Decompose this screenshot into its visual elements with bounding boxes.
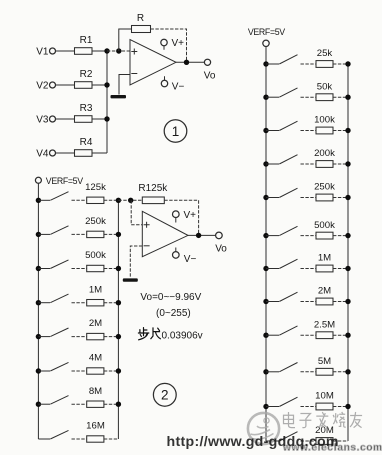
svg-text:V−: V− [172, 81, 185, 92]
resistor R2 [75, 82, 93, 89]
wire switch to resistor 10M [301, 406, 317, 408]
switch S10M blade [279, 397, 297, 406]
input terminal V2 [50, 82, 56, 88]
wire U2 - input to ground [130, 246, 142, 278]
svg-text:10M: 10M [315, 391, 334, 402]
input terminal V3 [50, 116, 56, 122]
wire resistor 20M to right output rail [333, 440, 348, 442]
U1 + input pin mark [131, 49, 137, 55]
svg-text:1M: 1M [318, 253, 331, 264]
wire resistor 500k to output rail [104, 268, 119, 270]
svg-text:5M: 5M [318, 356, 331, 367]
wire summing node to U2 + input [131, 200, 142, 225]
svg-text:V4: V4 [36, 149, 49, 160]
rail junction at 500k branch [36, 266, 41, 271]
wire resistor 2.5M to right output rail [333, 334, 348, 336]
rail junction at 250k branch [263, 195, 268, 200]
right ladder output rail [347, 64, 349, 441]
output rail junction [116, 334, 121, 339]
svg-text:8M: 8M [89, 386, 102, 397]
U2 output junction node [196, 233, 201, 238]
wire switch to resistor 1M [301, 268, 317, 270]
svg-text:250k: 250k [85, 216, 106, 227]
output rail junction [116, 368, 121, 373]
wire switch to resistor 500k [301, 235, 317, 237]
wire resistor 8M to output rail [104, 403, 119, 405]
wire R2 to summing rail [92, 84, 107, 86]
svg-text:125k: 125k [85, 182, 106, 193]
switch S100k left stub [266, 130, 279, 132]
junction on summing rail y=85 [104, 82, 109, 87]
right output rail junction [345, 369, 350, 374]
V- stub wire [164, 76, 166, 80]
wire V2 to R2 [56, 84, 75, 86]
wire resistor 2M to output rail [104, 336, 119, 338]
svg-text:16M: 16M [86, 421, 105, 432]
svg-text:V+: V+ [184, 210, 197, 221]
wire resistor 1M to output rail [104, 302, 119, 304]
resistor 25k [316, 61, 333, 68]
wire switch to resistor 2M [301, 301, 317, 303]
wire switch to resistor 200k [301, 163, 317, 165]
switch S20M blade [279, 432, 297, 441]
svg-text:V3: V3 [36, 115, 49, 126]
switch S1M left stub [266, 268, 279, 270]
right output rail junction [345, 195, 350, 200]
switch S500k blade [50, 260, 68, 269]
resistor 50k [316, 94, 333, 101]
switch S16M blade [50, 430, 68, 439]
resistor 20M [316, 438, 333, 445]
switch S200k left stub [266, 163, 279, 165]
wire VERF to right ladder rail [265, 47, 267, 65]
rail junction at 10M branch [263, 404, 268, 409]
wire V1 to R1 [56, 50, 75, 52]
svg-text:V2: V2 [36, 81, 49, 92]
U1 V+ supply terminal [161, 39, 167, 45]
output rail junction [116, 198, 121, 203]
junction on summing rail y=51 [104, 48, 109, 53]
circled number 1 [164, 120, 187, 143]
right ladder supply rail [265, 64, 267, 441]
switch S1M blade [50, 294, 68, 303]
VERF terminal (left) [35, 177, 41, 183]
U2 + input pin mark [144, 222, 150, 228]
svg-text:500k: 500k [85, 250, 106, 261]
svg-text:50k: 50k [317, 81, 333, 92]
wire R4 to summing rail [92, 152, 107, 154]
right output rail junction [345, 333, 350, 338]
resistor 500k [316, 232, 333, 239]
resistor R3 [75, 116, 93, 123]
right output rail junction [345, 266, 350, 271]
wire switch to resistor 100k [301, 130, 317, 132]
resistor 2.5M [316, 332, 333, 339]
wire switch to resistor 250k [72, 233, 87, 235]
svg-text:VERF=5V: VERF=5V [46, 176, 83, 186]
svg-text:R1: R1 [80, 35, 93, 46]
switch S2M blade [50, 328, 68, 337]
switch S25k left stub [266, 63, 279, 65]
input terminal V4 [50, 150, 56, 156]
svg-text:Vo: Vo [215, 243, 227, 254]
right output rail junction [345, 233, 350, 238]
summing junction node U2 [128, 198, 133, 203]
wire resistor 250k to right output rail [333, 197, 348, 199]
svg-text:(0~255): (0~255) [156, 308, 191, 319]
resistor 1M [316, 265, 333, 272]
input terminal V1 [50, 48, 56, 54]
U2 V+ supply terminal [173, 211, 180, 218]
switch S20M left stub [266, 440, 279, 442]
switch S250k left stub [38, 233, 50, 235]
switch S2M left stub [266, 301, 279, 303]
resistor 4M [87, 368, 104, 374]
switch S500k blade [279, 226, 297, 235]
svg-text:1M: 1M [89, 284, 102, 295]
svg-text:V1: V1 [36, 47, 49, 58]
switch S8M blade [50, 396, 68, 405]
switch S16M left stub [38, 438, 50, 440]
wire switch to resistor 5M [301, 371, 317, 373]
switch S2.5M blade [279, 326, 297, 335]
rail junction at 50k branch [263, 95, 268, 100]
rail junction at 100k branch [263, 128, 268, 133]
wire rail to op-amp U1 + input [107, 50, 130, 52]
svg-text:R4: R4 [80, 137, 93, 148]
switch S1M left stub [38, 302, 50, 304]
svg-text:100k: 100k [314, 115, 335, 126]
resistor 8M [87, 401, 104, 407]
switch S2.5M left stub [266, 334, 279, 336]
resistor 5M [316, 368, 333, 375]
resistor 250k [316, 194, 333, 201]
output terminal Vo (2) [216, 232, 223, 239]
switch S100k blade [279, 121, 297, 130]
wire switch to resistor 20M [301, 440, 317, 442]
ground symbol (U2) [123, 278, 138, 281]
rail junction at 4M branch [36, 368, 41, 373]
wire rail to summing node U2 [118, 199, 142, 201]
rail junction at 250k branch [36, 232, 41, 237]
switch S125k left stub [38, 199, 50, 201]
wire V4 to R4 [56, 152, 75, 154]
wire VERF to ladder rail [37, 183, 39, 200]
output terminal Vo (1) [204, 59, 210, 65]
rail junction at 5M branch [263, 369, 268, 374]
svg-text:4M: 4M [89, 353, 102, 364]
switch S125k blade [50, 192, 68, 201]
summing rail wire [106, 51, 108, 153]
svg-text:R125k: R125k [138, 183, 168, 194]
switch S250k left stub [266, 197, 279, 199]
annotation 步长 0.03906v (step size) [138, 328, 160, 340]
wire switch to resistor 250k [301, 197, 317, 199]
switch S4M left stub [38, 370, 50, 372]
switch S200k blade [279, 155, 297, 164]
feedback resistor R [132, 26, 151, 33]
right output rail junction [345, 95, 350, 100]
ground symbol (U1) [111, 95, 127, 98]
wire switch to resistor 4M [72, 370, 87, 372]
switch S5M blade [279, 363, 297, 372]
wire resistor 16M to output rail [104, 438, 119, 440]
left ladder supply rail [37, 200, 39, 439]
wire resistor 5M to right output rail [333, 371, 348, 373]
U2 V- stub [175, 248, 177, 252]
resistor 1M [87, 300, 104, 306]
wire resistor 200k to right output rail [333, 163, 348, 165]
resistor 200k [316, 161, 333, 168]
svg-text:2M: 2M [318, 286, 331, 297]
svg-text:2: 2 [161, 388, 169, 403]
feedback wire to U2 output [164, 200, 198, 235]
resistor 2M [316, 298, 333, 305]
svg-text:200k: 200k [314, 148, 335, 159]
wire V3 to R3 [56, 118, 75, 120]
output rail junction [116, 266, 121, 271]
wire resistor 1M to right output rail [333, 268, 348, 270]
U1 - input pin mark [131, 73, 137, 75]
wire switch to resistor 125k [72, 199, 87, 201]
switch S4M blade [50, 362, 68, 371]
wire U1 - input to ground [119, 75, 130, 95]
rail junction at 1M branch [263, 266, 268, 271]
circled number 2 [153, 383, 176, 406]
wire switch to resistor 50k [301, 96, 317, 98]
wire resistor 50k to right output rail [333, 96, 348, 98]
resistor 16M [87, 436, 104, 442]
wire switch to resistor 2.5M [301, 334, 317, 336]
wire resistor 25k to right output rail [333, 63, 348, 65]
V+ stub wire [163, 46, 165, 50]
switch S10M left stub [266, 406, 279, 408]
resistor 500k [87, 265, 104, 271]
rail junction at 1M branch [36, 300, 41, 305]
wire switch to resistor 1M [72, 302, 87, 304]
svg-text:Vo=0~−9.96V: Vo=0~−9.96V [140, 292, 201, 303]
right output rail junction [345, 404, 350, 409]
feedback wire up from node [119, 29, 132, 51]
switch S25k blade [279, 55, 297, 64]
resistor 125k [87, 197, 104, 203]
rail junction at 8M branch [36, 402, 41, 407]
wire resistor 100k to right output rail [333, 130, 348, 132]
switch S500k left stub [38, 268, 50, 270]
svg-text:R3: R3 [80, 103, 93, 114]
rail junction at 25k branch [263, 61, 268, 66]
svg-text:0.03906v: 0.03906v [162, 330, 203, 341]
svg-text:2M: 2M [89, 318, 102, 329]
switch S1M blade [279, 259, 297, 268]
switch S5M left stub [266, 371, 279, 373]
output junction node [184, 60, 189, 65]
wire R1 to summing rail [92, 50, 107, 52]
wire switch to resistor 25k [301, 63, 317, 65]
wire R3 to summing rail [92, 118, 107, 120]
left ladder output rail [117, 200, 119, 439]
wire resistor 4M to output rail [104, 370, 119, 372]
feedback wire R to output [151, 29, 187, 62]
feedback resistor R125k [142, 197, 164, 204]
svg-text:R: R [137, 13, 144, 24]
U2 output wire [188, 234, 216, 236]
resistor 2M [87, 333, 104, 339]
wire switch to resistor 2M [72, 336, 87, 338]
right output rail junction [345, 299, 350, 304]
watermark text 电子发烧友 [284, 412, 363, 428]
wire resistor 10M to right output rail [333, 406, 348, 408]
rail junction at 500k branch [263, 233, 268, 238]
rail junction at 2.5M branch [263, 333, 268, 338]
switch S2M blade [279, 292, 297, 301]
switch S250k blade [279, 188, 297, 197]
wire switch to resistor 500k [72, 268, 87, 270]
U2 V- supply terminal [173, 252, 180, 259]
junction on summing rail y=119 [104, 116, 109, 121]
rail junction at 125k branch [36, 198, 41, 203]
rail junction at 2M branch [263, 299, 268, 304]
svg-text:V+: V+ [172, 38, 185, 49]
svg-text:250k: 250k [314, 182, 335, 193]
watermark elecfans logo circle [248, 413, 279, 444]
switch S50k left stub [266, 96, 279, 98]
svg-text:500k: 500k [314, 220, 335, 231]
right output rail junction [345, 161, 350, 166]
switch S50k blade [279, 88, 297, 97]
switch S250k blade [50, 226, 68, 235]
junction feedback tap node [116, 48, 121, 53]
wire resistor 125k to output rail [104, 199, 119, 201]
wire resistor 250k to output rail [104, 233, 119, 235]
right output rail junction [345, 61, 350, 66]
wire resistor 2M to right output rail [333, 301, 348, 303]
svg-text:V−: V− [184, 254, 197, 265]
U1 V- supply terminal [161, 80, 167, 86]
right output rail junction [345, 128, 350, 133]
switch S500k left stub [266, 235, 279, 237]
svg-text:1: 1 [172, 124, 180, 139]
resistor 250k [87, 231, 104, 237]
resistor R1 [75, 48, 93, 55]
U1 output wire [176, 61, 204, 63]
VERF terminal (right) [263, 40, 269, 46]
svg-text:2.5M: 2.5M [314, 319, 335, 330]
resistor 10M [316, 403, 333, 410]
wire switch to resistor 16M [72, 438, 87, 440]
svg-text:25k: 25k [317, 48, 333, 59]
switch S2M left stub [38, 336, 50, 338]
resistor 100k [316, 127, 333, 134]
U2 - input pin mark [144, 245, 150, 247]
op-amp U2 triangle [142, 211, 188, 256]
output rail junction [116, 300, 121, 305]
switch S8M left stub [38, 403, 50, 405]
resistor R4 [75, 150, 93, 157]
wire switch to resistor 8M [72, 403, 87, 405]
op-amp U1 triangle [130, 40, 176, 86]
svg-text:http://www.gd-gddq.com: http://www.gd-gddq.com [167, 434, 339, 450]
output rail junction [116, 232, 121, 237]
rail junction at 200k branch [263, 161, 268, 166]
output rail junction [116, 402, 121, 407]
svg-text:Vo: Vo [204, 71, 216, 82]
rail junction at 2M branch [36, 334, 41, 339]
svg-text:VERF=5V: VERF=5V [248, 27, 285, 37]
wire resistor 500k to right output rail [333, 235, 348, 237]
svg-text:R2: R2 [80, 69, 93, 80]
U2 V+ stub [175, 218, 177, 223]
